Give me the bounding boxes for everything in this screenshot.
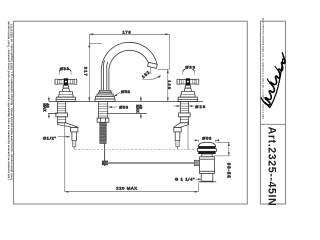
svg-text:178: 178 (123, 29, 132, 34)
svg-text:217: 217 (84, 67, 89, 77)
svg-text:Ø33: Ø33 (185, 64, 196, 69)
svg-text:MAX: MAX (42, 103, 46, 112)
svg-text:162: 162 (141, 69, 151, 79)
svg-text:220 MAX: 220 MAX (116, 185, 137, 190)
svg-text:Art.2325--45IN: Art.2325--45IN (265, 127, 277, 207)
svg-text:128: 128 (167, 80, 172, 90)
svg-text:REV 4.3 DIS. N.2325 C.F. 03 P.: REV 4.3 DIS. N.2325 C.F. 03 P.IVA IT 0 C… (262, 17, 265, 119)
svg-text:Ø53: Ø53 (121, 89, 131, 94)
svg-text:G1/2": G1/2" (43, 135, 57, 140)
svg-text:G 1 1/4": G 1 1/4" (175, 177, 195, 182)
svg-text:Ø63: Ø63 (202, 135, 212, 140)
svg-text:Ø28: Ø28 (195, 104, 206, 109)
svg-text:Ø33: Ø33 (60, 66, 70, 71)
svg-text:Tutti i diritti riservati - ri: Tutti i diritti riservati - riproduzione… (11, 24, 14, 180)
svg-text:Ø33: Ø33 (119, 104, 129, 109)
svg-text:33-53: 33-53 (226, 163, 231, 179)
svg-text:MAX: MAX (135, 105, 139, 114)
